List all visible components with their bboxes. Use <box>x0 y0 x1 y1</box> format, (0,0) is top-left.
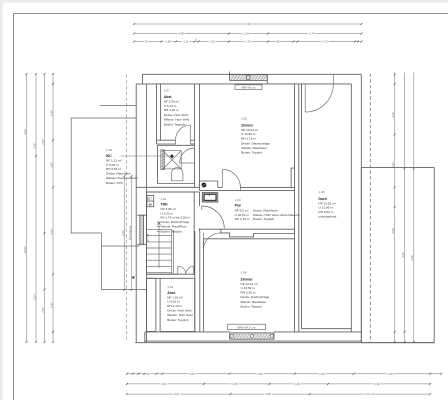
svg-text:Abst.: Abst. <box>164 95 173 99</box>
svg-text:2,26: 2,26 <box>294 382 300 386</box>
svg-text:2,42: 2,42 <box>49 302 53 308</box>
svg-text:2,99: 2,99 <box>387 372 393 376</box>
svg-text:4,36: 4,36 <box>410 255 414 261</box>
svg-text:4,01: 4,01 <box>174 392 180 396</box>
svg-text:Boden: Teppich: Boden: Teppich <box>241 151 263 155</box>
svg-text:1.02: 1.02 <box>167 285 173 289</box>
svg-text:Decke: Dachschräge: Decke: Dachschräge <box>241 141 270 145</box>
svg-text:RH 2,19 m: RH 2,19 m <box>235 217 250 221</box>
svg-text:Boden: Teppich: Boden: Teppich <box>241 305 263 309</box>
svg-text:NF 5,2 m²: NF 5,2 m² <box>235 208 249 212</box>
svg-text:Boden: PVC: Boden: PVC <box>106 181 124 185</box>
svg-text:3,96: 3,96 <box>374 382 380 386</box>
svg-text:1,26: 1,26 <box>209 40 215 44</box>
svg-text:2,55: 2,55 <box>232 382 238 386</box>
svg-text:RH 2,26 m: RH 2,26 m <box>164 108 179 112</box>
svg-text:2,39: 2,39 <box>49 110 53 116</box>
svg-text:1,14: 1,14 <box>243 32 249 36</box>
svg-text:Wände: Holz Verkl: Wände: Holz Verkl <box>167 313 193 317</box>
svg-text:RH 1,16 m: RH 1,16 m <box>241 137 256 141</box>
svg-text:88: 88 <box>276 40 280 44</box>
svg-text:Decke: Holz Sicht: Decke: Holz Sicht <box>164 113 189 117</box>
svg-text:U 10,52 m: U 10,52 m <box>235 213 250 217</box>
svg-text:2,64: 2,64 <box>189 372 195 376</box>
svg-text:Decke: Dachschräge: Decke: Dachschräge <box>161 220 190 224</box>
svg-text:NF 1,31 m²: NF 1,31 m² <box>106 159 121 163</box>
svg-text:9,18: 9,18 <box>245 22 251 26</box>
svg-text:Decke: Dachschräge: Decke: Dachschräge <box>241 295 270 299</box>
svg-text:Decke: Rauhfaser: Decke: Rauhfaser <box>106 172 131 176</box>
svg-text:10,94: 10,94 <box>23 246 27 253</box>
svg-text:2,59: 2,59 <box>257 372 263 376</box>
svg-text:3,08: 3,08 <box>265 392 271 396</box>
svg-text:NF 10,04 m²: NF 10,04 m² <box>241 128 258 132</box>
svg-text:1.03: 1.03 <box>235 198 241 202</box>
svg-text:2,26: 2,26 <box>319 372 325 376</box>
svg-text:Boden: Teppich: Boden: Teppich <box>167 318 189 322</box>
svg-text:24: 24 <box>146 372 150 376</box>
svg-text:Wände: Rauhfaser: Wände: Rauhfaser <box>241 300 267 304</box>
svg-text:NF 2,53 m²: NF 2,53 m² <box>164 100 179 104</box>
svg-text:3,01: 3,01 <box>161 382 167 386</box>
svg-text:Dach: Dach <box>319 197 327 201</box>
svg-text:1,97: 1,97 <box>49 162 53 168</box>
svg-text:1,38: 1,38 <box>165 40 171 44</box>
svg-text:U 14,90 m: U 14,90 m <box>241 132 256 136</box>
svg-text:3,64: 3,64 <box>49 229 53 235</box>
svg-text:2,51: 2,51 <box>41 307 45 313</box>
svg-text:NF 12,43 m²: NF 12,43 m² <box>241 282 258 286</box>
svg-text:WC: WC <box>106 154 112 158</box>
svg-text:1.04: 1.04 <box>241 271 247 275</box>
svg-text:Wände: Rauhfaser: Wände: Rauhfaser <box>241 146 267 150</box>
svg-text:unausgebaut: unausgebaut <box>319 215 337 219</box>
svg-text:Boden: Teppich: Boden: Teppich <box>161 229 183 233</box>
svg-text:NF 10,53 m²: NF 10,53 m² <box>319 201 336 205</box>
svg-text:1,26: 1,26 <box>391 112 395 118</box>
svg-text:Boden: Teppich: Boden: Teppich <box>164 122 186 126</box>
svg-text:2,26: 2,26 <box>121 230 125 236</box>
svg-text:4,36: 4,36 <box>401 252 405 258</box>
svg-text:4,38: 4,38 <box>178 32 184 36</box>
svg-text:3,36: 3,36 <box>32 143 36 149</box>
svg-text:1.07: 1.07 <box>164 89 170 93</box>
svg-text:RH 2,16 m: RH 2,16 m <box>167 304 182 308</box>
svg-text:Decke: Rauhfaser: Decke: Rauhfaser <box>253 208 278 212</box>
svg-text:1,73: 1,73 <box>322 40 328 44</box>
svg-text:1.08: 1.08 <box>319 190 325 194</box>
svg-text:Wände: Holz Verkl.+Rest Mauerw: Wände: Holz Verkl.+Rest Mauerw. <box>253 213 300 217</box>
svg-text:Wände: Holz Verkl: Wände: Holz Verkl <box>164 118 190 122</box>
svg-text:1.05: 1.05 <box>241 116 247 120</box>
svg-text:2,74: 2,74 <box>309 32 315 36</box>
svg-text:RH 2,53 m: RH 2,53 m <box>106 167 121 171</box>
svg-text:Flur: Flur <box>235 204 242 208</box>
svg-text:ELT: ELT <box>147 198 152 201</box>
svg-text:4,71: 4,71 <box>364 392 370 396</box>
svg-text:1.01: 1.01 <box>161 197 167 201</box>
svg-text:Durchgang: Durchgang <box>128 226 132 240</box>
svg-text:RH 0,50 m: RH 0,50 m <box>319 210 334 214</box>
svg-text:BRH 84,5 cm: BRH 84,5 cm <box>238 325 256 329</box>
svg-text:2,43: 2,43 <box>41 139 45 145</box>
svg-text:Boden: Teppich: Boden: Teppich <box>253 217 275 221</box>
svg-text:3,08: 3,08 <box>391 228 395 234</box>
svg-text:1,76: 1,76 <box>245 40 251 44</box>
svg-text:Decke: Holz Verkl: Decke: Holz Verkl <box>167 309 192 313</box>
svg-text:TRH: TRH <box>161 203 169 207</box>
svg-text:BRH 86 cm: BRH 86 cm <box>242 85 257 89</box>
svg-text:W: W <box>149 203 152 207</box>
svg-text:2,04: 2,04 <box>32 294 36 300</box>
svg-text:1,11: 1,11 <box>183 40 189 44</box>
svg-text:18 Stg: 18 Stg <box>146 234 150 243</box>
svg-text:Wände: Rauh/Putz: Wände: Rauh/Putz <box>161 225 187 229</box>
svg-text:76: 76 <box>144 40 148 44</box>
svg-text:11: 11 <box>195 37 198 41</box>
svg-text:Rh 1,79 m bis 2,50 m: Rh 1,79 m bis 2,50 m <box>161 216 191 220</box>
svg-text:1,32: 1,32 <box>391 162 395 168</box>
svg-text:Wände: Fliesen+Rauhf: Wände: Fliesen+Rauhf <box>106 176 138 180</box>
svg-text:2,61: 2,61 <box>23 129 27 135</box>
svg-text:RH 2,36 m: RH 2,36 m <box>241 290 256 294</box>
svg-text:1.06: 1.06 <box>106 148 112 152</box>
svg-text:Abst.: Abst. <box>167 291 176 295</box>
